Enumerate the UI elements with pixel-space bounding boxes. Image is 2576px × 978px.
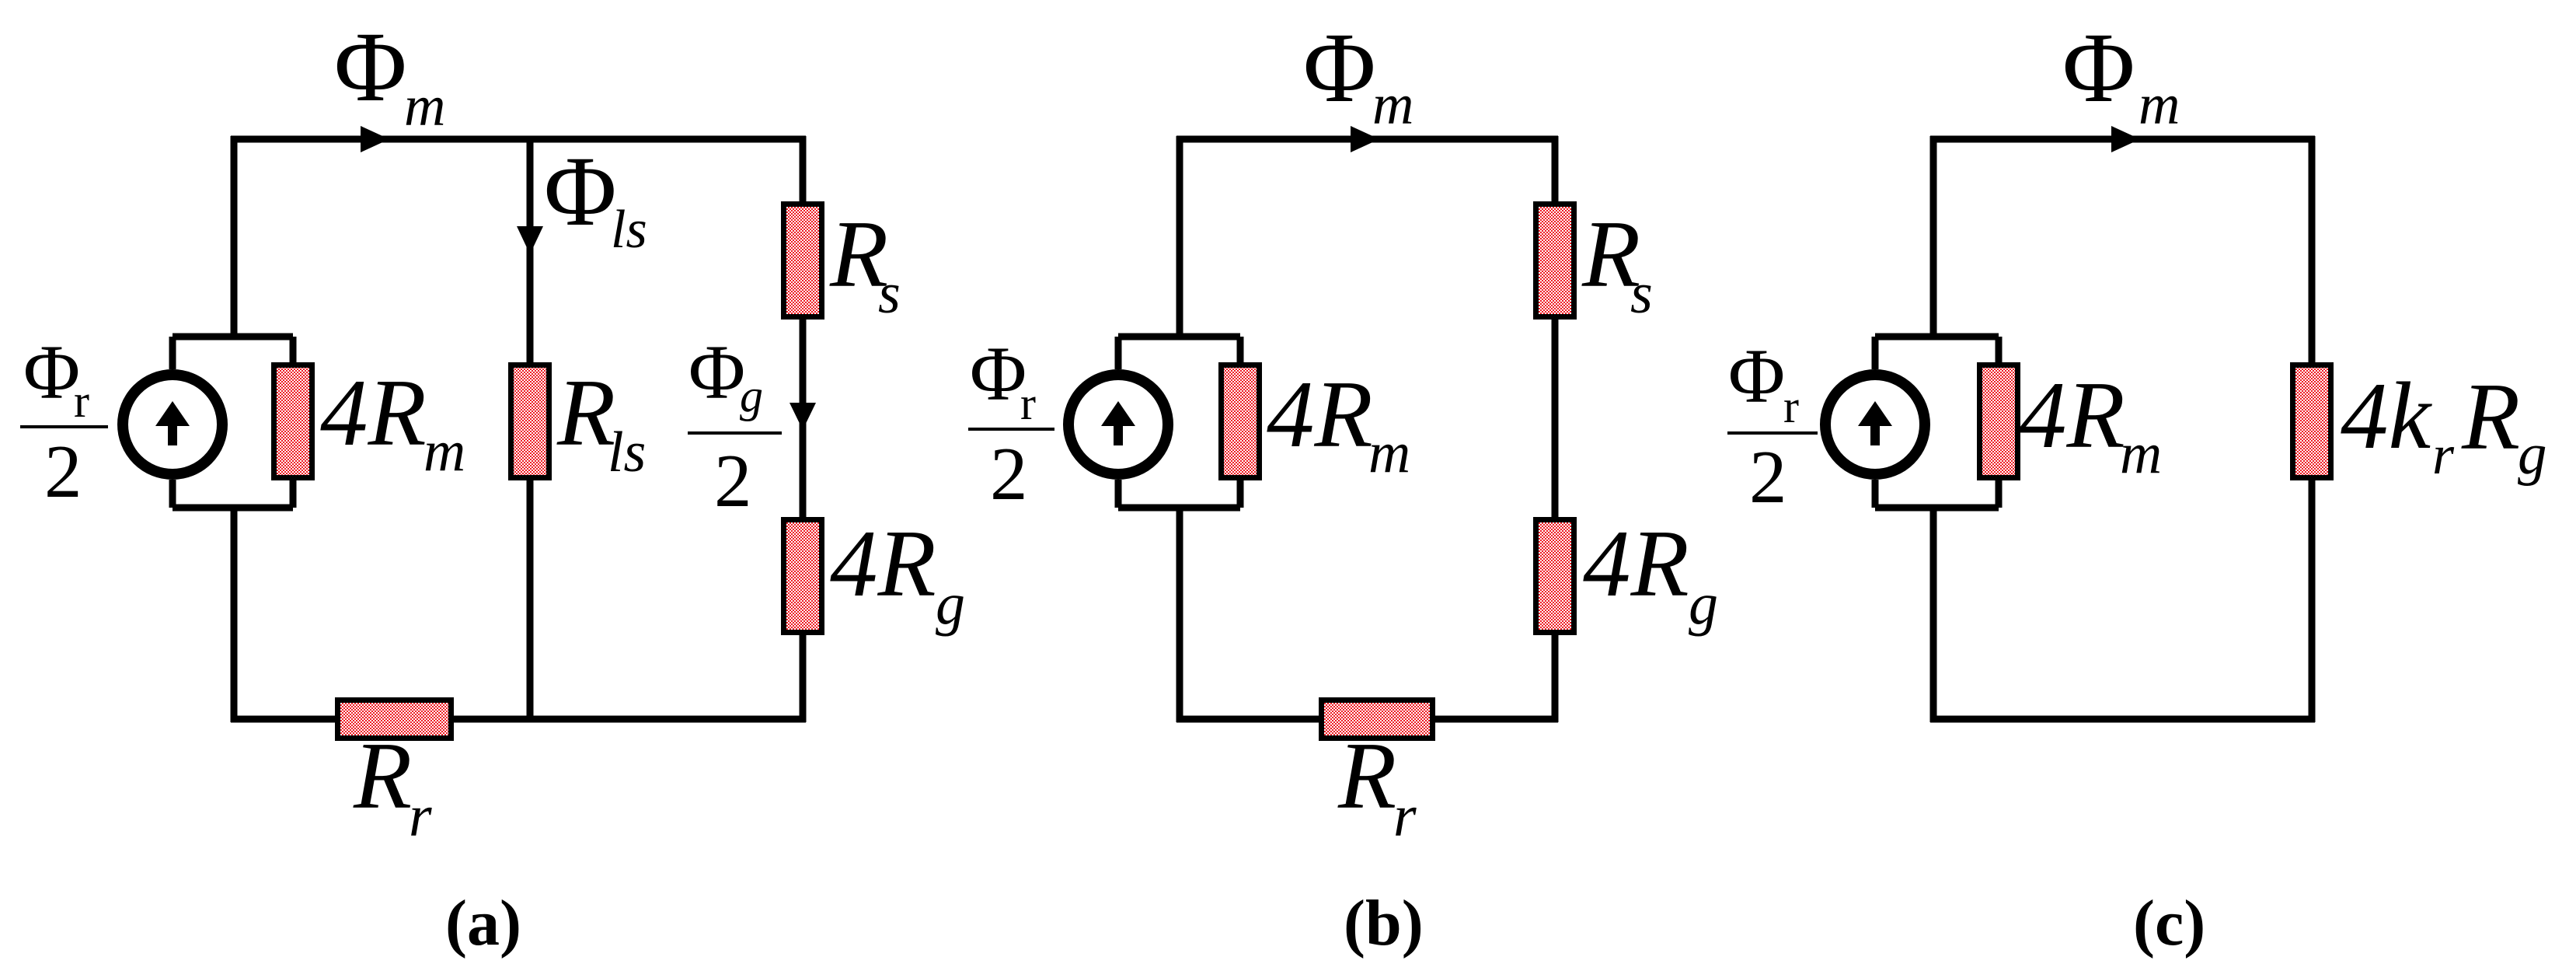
svg-text:4k: 4k — [2341, 362, 2433, 469]
source box (c) — [1875, 337, 1999, 508]
svg-text:r: r — [1783, 381, 1799, 432]
resistor Rr (a) — [335, 697, 454, 741]
svg-text:Φ: Φ — [2062, 12, 2135, 123]
svg-text:Φ: Φ — [23, 329, 80, 415]
svg-text:Φ: Φ — [1303, 12, 1376, 123]
wire left vertical upper (a) — [231, 136, 238, 340]
resistor 4krRg (c) — [2290, 362, 2334, 480]
source box (b) — [1118, 337, 1240, 508]
svg-text:R: R — [556, 359, 615, 466]
svg-text:2: 2 — [1749, 435, 1787, 519]
wire top (b) — [1176, 136, 1558, 143]
flux arrow Phi_m (a) — [361, 126, 389, 152]
svg-text:Φ: Φ — [334, 12, 407, 122]
svg-text:Φ: Φ — [970, 330, 1027, 417]
svg-text:g: g — [2518, 422, 2547, 487]
wire left vertical lower (b) — [1176, 508, 1183, 722]
resistor Rls (a) — [508, 362, 552, 480]
svg-text:m: m — [404, 75, 445, 138]
wire top (a) — [231, 136, 806, 143]
svg-text:R: R — [2461, 363, 2520, 470]
wire right vertical (c) — [2309, 136, 2316, 722]
svg-text:ls: ls — [611, 200, 647, 260]
current source arrow (a) — [155, 401, 190, 426]
svg-text:g: g — [740, 370, 763, 421]
resistor 4Rg (a) — [781, 517, 824, 635]
svg-text:r: r — [1020, 378, 1036, 429]
flux arrow Phi_ls (a) — [517, 226, 543, 254]
svg-text:Φ: Φ — [544, 136, 617, 246]
current source circle (c) — [1825, 375, 1925, 474]
svg-text:2: 2 — [44, 430, 82, 513]
svg-text:4R: 4R — [1583, 510, 1689, 616]
svg-text:(b): (b) — [1344, 887, 1424, 959]
svg-text:g: g — [936, 571, 965, 637]
svg-text:m: m — [2120, 421, 2162, 486]
svg-text:(c): (c) — [2133, 887, 2205, 959]
svg-text:R: R — [353, 722, 412, 829]
current source arrow (b) — [1101, 401, 1135, 426]
wire bottom (a) — [231, 716, 806, 723]
current source circle (b) — [1068, 375, 1168, 474]
svg-text:g: g — [1689, 571, 1718, 637]
resistor Rs (b) — [1533, 201, 1577, 320]
flux arrow Phi_m (b) — [1351, 126, 1379, 152]
svg-text:2: 2 — [990, 432, 1028, 515]
svg-text:r: r — [74, 375, 89, 427]
svg-text:4R: 4R — [1267, 361, 1373, 467]
current source arrow (c) — [1858, 401, 1892, 426]
svg-text:r: r — [2432, 424, 2455, 486]
wire right vertical (b) — [1552, 136, 1559, 722]
wire left vertical upper (c) — [1930, 136, 1937, 340]
svg-text:Φ: Φ — [688, 329, 745, 415]
resistor 4Rm (a) — [271, 362, 315, 480]
svg-text:ls: ls — [608, 421, 646, 484]
wire middle branch (a) — [527, 139, 534, 719]
wire right vertical (a) — [800, 136, 807, 722]
flux arrow Phi_g (a) — [790, 403, 816, 430]
wire bottom (c) — [1930, 716, 2315, 723]
svg-text:r: r — [1393, 784, 1417, 849]
svg-text:s: s — [1630, 262, 1653, 326]
svg-text:r: r — [409, 784, 432, 849]
resistor 4Rm (c) — [1977, 362, 2020, 480]
resistor 4Rm (b) — [1218, 362, 1262, 480]
wire left vertical upper (b) — [1176, 136, 1183, 340]
flux arrow Phi_m (c) — [2111, 126, 2140, 152]
svg-text:R: R — [1337, 722, 1396, 829]
svg-text:m: m — [2139, 73, 2180, 137]
svg-text:4R: 4R — [320, 359, 427, 466]
svg-text:m: m — [1372, 73, 1413, 137]
svg-text:m: m — [424, 419, 465, 484]
svg-text:4R: 4R — [2019, 362, 2125, 468]
source box (a) — [173, 337, 293, 508]
wire bottom (b) — [1176, 716, 1558, 723]
wire left vertical lower (c) — [1930, 508, 1937, 722]
resistor Rr (b) — [1319, 697, 1435, 741]
svg-text:m: m — [1368, 421, 1410, 485]
resistor 4Rg (b) — [1533, 517, 1577, 635]
svg-text:2: 2 — [714, 439, 752, 522]
svg-text:Φ: Φ — [1728, 333, 1785, 419]
wire top (c) — [1930, 136, 2315, 143]
resistor Rs (a) — [781, 201, 824, 320]
wire left vertical lower (a) — [231, 508, 238, 722]
svg-text:(a): (a) — [445, 887, 521, 959]
svg-text:4R: 4R — [830, 510, 936, 616]
current source circle (a) — [123, 375, 222, 474]
svg-text:s: s — [878, 262, 901, 326]
